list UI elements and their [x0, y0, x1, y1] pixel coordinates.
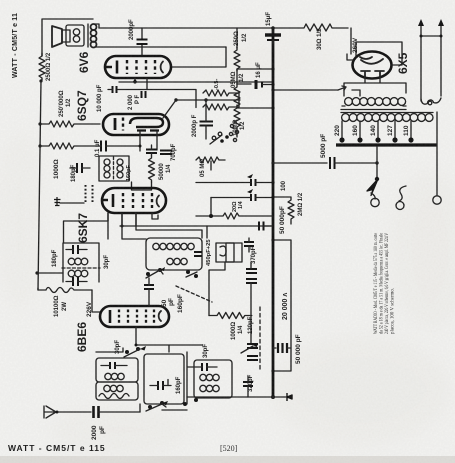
label 05: [200, 159, 206, 177]
label 20 ohm 1/4: [232, 200, 244, 212]
switch contacts av: [230, 124, 238, 137]
wire top-left corner: [42, 19, 93, 56]
wire cathode rail: [118, 90, 196, 108]
ground main: [284, 393, 292, 401]
label 2M ohm 1/2: [298, 192, 304, 216]
switch circles volume: [229, 132, 236, 141]
wire grid to if can: [64, 213, 109, 243]
junction dot bus 146: [38, 144, 41, 147]
label 5000pF: [320, 134, 327, 158]
label 20000 ohm: [282, 293, 289, 320]
label 250000 ohm 1/2: [59, 90, 72, 117]
junction dot left bus if: [35, 271, 63, 274]
IF T2 top capacitor 180pF: [66, 245, 87, 254]
footer model label: [8, 443, 106, 453]
capacitor 180pF av: [70, 163, 90, 173]
interstage primary column: [104, 159, 110, 178]
rf bottom trimmer: [146, 401, 168, 411]
rf coil box right: [194, 360, 232, 398]
tube 6X5 envelope: [353, 52, 392, 79]
label 30pF rf: [203, 344, 209, 358]
pilot winding riser left: [418, 19, 424, 101]
label 6SK7: [76, 213, 90, 243]
6X5 cathode arc: [360, 57, 383, 64]
label 6V6: [77, 51, 91, 73]
6SQ7 grid dashes: [122, 118, 124, 131]
label 250 ohm 1/2: [234, 31, 248, 46]
6SK7 leads down: [108, 213, 158, 239]
rf middle frame: [144, 354, 184, 404]
label 50000pF output: [295, 334, 302, 364]
label 120pF: [248, 316, 254, 334]
resistor 1000 ohm: [40, 143, 96, 149]
label 2000 pF: [128, 94, 141, 110]
capacitor 5000pF: [330, 157, 378, 169]
oscillator primary coil: [153, 243, 194, 249]
antenna coil resistor wavy: [99, 394, 129, 399]
interstage transformer box: [99, 156, 129, 181]
label 0.1uF: [95, 139, 101, 157]
transformer primary winding: [342, 114, 433, 122]
oscillator padder cap: [194, 252, 202, 256]
antenna symbol: [44, 406, 59, 418]
label 10M ohm 1/2: [233, 119, 246, 136]
pilot lamp lead: [433, 112, 441, 204]
wire bus to 5000pF: [271, 161, 378, 164]
antenna coil cap: [101, 362, 127, 369]
mains lead wire: [375, 147, 379, 181]
6SK7 grids dashed: [123, 193, 152, 208]
antenna coil winding upper: [105, 373, 124, 379]
transformer core lines: [341, 110, 433, 113]
capacitor 370pF: [244, 238, 254, 252]
label 6SQ7: [75, 90, 89, 121]
riser connector wire: [420, 35, 443, 38]
label 160pF osc: [177, 294, 184, 313]
label 2500 ohm 1/2: [46, 52, 52, 81]
capacitor decoupling a: [196, 174, 275, 186]
pilot winding loops: [421, 98, 441, 105]
6SQ7 plate bar: [114, 118, 117, 130]
antenna coil box upper: [96, 358, 138, 382]
6SK7 plate bar: [102, 194, 113, 207]
capacitor 0.1uF: [96, 141, 142, 152]
label 2000pF: [129, 19, 135, 40]
oscillator switch dots: [186, 270, 198, 278]
antenna trimmer: [124, 346, 146, 357]
label 370pF: [251, 246, 257, 264]
capacitor 50pF: [144, 278, 154, 306]
tap 140: [370, 121, 381, 143]
label 320pF: [248, 374, 254, 392]
capacitor 10000pF: [108, 86, 117, 93]
wire chain top connector: [236, 28, 238, 48]
footer page number: [220, 444, 238, 453]
IF T2 secondary coil: [68, 270, 88, 277]
mains plug arrow: [367, 179, 379, 207]
output transformer primary winding: [88, 24, 97, 48]
wire HT left drop: [271, 86, 360, 96]
6SQ7 plate diagonal wire: [163, 98, 178, 118]
resistor 2500ohm 1/2 field coil: [39, 53, 45, 80]
wire 6V6 plate to OPT: [171, 47, 226, 67]
wire frontend bottom: [140, 397, 228, 412]
bfo coil box: [226, 243, 242, 262]
rf coil winding upper: [200, 374, 219, 380]
6SQ7 cathode leads: [140, 131, 157, 151]
6V6 plate bar: [105, 61, 117, 74]
wire cathode bottom: [132, 182, 152, 190]
resistor 250k grid: [40, 121, 100, 127]
pilot winding riser right: [438, 19, 444, 96]
voltage selector bar: [336, 143, 437, 146]
label 30pF if: [104, 255, 110, 269]
label 100: [281, 180, 287, 191]
wire 6X5 plate left: [347, 42, 402, 65]
label 226V: [86, 301, 93, 317]
wire screen rail: [119, 81, 273, 83]
electrolytic 15uF: [265, 30, 281, 44]
capacitor 2000pF plate bypass: [137, 28, 148, 56]
capacitor near avc: [259, 222, 273, 231]
wire bus branch right column: [271, 238, 291, 372]
transformer HV winding: [342, 98, 406, 106]
6V6 cathode arc: [161, 62, 163, 73]
resistor tone lower: [203, 93, 239, 110]
label 10000 ohm 2W: [54, 295, 68, 317]
page title vertical WATT - CM5/T e 11: [12, 13, 19, 78]
tube 6SQ7 envelope: [103, 114, 169, 135]
label 180pF: [71, 164, 77, 182]
capacitor 700pF: [160, 151, 172, 155]
resistor 250 ohm cathode: [234, 47, 240, 71]
fuse hook: [396, 186, 406, 210]
label 450pF+25: [206, 239, 212, 266]
resistor 1000 1/4: [209, 313, 252, 319]
oscillator secondary coil: [167, 258, 187, 264]
wire 260V down to 6X5: [350, 28, 352, 54]
6BE6 grids dashed: [119, 310, 154, 324]
interstage secondary column: [117, 159, 123, 178]
left bus wire: [38, 81, 41, 290]
bus bottom junction: [228, 395, 284, 399]
dotted leads down: [86, 185, 93, 202]
wire plate rail: [176, 99, 240, 101]
label 260V: [352, 37, 359, 53]
tap 110: [403, 121, 414, 143]
main HT bus thick: [272, 28, 275, 398]
6X5 filament dashes: [361, 71, 384, 78]
label 6X5: [396, 52, 410, 74]
wire 226V drop: [92, 290, 100, 312]
6V6 leads to lower rail: [133, 78, 148, 90]
resistor 50000 1/4: [149, 156, 155, 182]
junction dot bus top: [271, 26, 275, 30]
resistor 0.5M feedback: [203, 79, 239, 96]
wire osc right drop: [209, 262, 225, 316]
label 1000 ohm 1/4: [231, 322, 244, 340]
junction dot bus 124: [38, 122, 41, 125]
wire osc to tube: [122, 213, 207, 239]
resistor 10M: [234, 105, 275, 129]
label 16uF: [256, 62, 262, 78]
capacitor decoupling b: [211, 189, 273, 201]
label 15uF: [266, 12, 272, 26]
electrolytic 16uF: [237, 80, 275, 89]
6BE6 cathode arc: [159, 311, 161, 321]
label 30 ohm 1/2: [317, 28, 323, 50]
label 160pF interstage: [126, 164, 132, 181]
gang trimmer caps: [241, 343, 258, 360]
resistor 30 ohm 1/2: [273, 24, 348, 31]
tap 220: [334, 121, 345, 143]
IF T2 core dashes: [62, 267, 100, 269]
label 50000 1/4: [159, 163, 172, 180]
IF T2 primary coil: [68, 258, 88, 265]
capacitor 2000pF antenna: [58, 406, 140, 418]
caption line 1: [374, 233, 379, 334]
junction dot left bus top: [39, 79, 42, 82]
small coupling box: [216, 243, 234, 262]
antenna coil winding lower: [104, 385, 123, 391]
IF transformer T2 box: [63, 243, 99, 282]
ground 6SK7 left: [54, 197, 84, 206]
capacitor 160pF rf: [150, 380, 171, 391]
resistor 10000 ohm 2W: [38, 288, 92, 293]
capacitor 320pF: [243, 376, 253, 397]
caption line 4: [391, 288, 396, 334]
oscillator coil box: [146, 238, 202, 270]
capacitor 2000pF coupling: [142, 91, 146, 98]
rf coil winding lower: [200, 385, 219, 391]
wire 6X5 to filament winding: [344, 78, 406, 96]
tube 6V6 envelope: [105, 56, 171, 78]
padder caps stack: [246, 262, 257, 343]
IF T2 bottom capacitor 180pF: [66, 277, 87, 286]
second top wire: [99, 46, 226, 48]
resistor 0.5M tone: [196, 157, 225, 170]
6SQ7 diode-triode loop: [130, 118, 163, 131]
capacitor 160pF cathode: [146, 145, 157, 156]
tap 127: [387, 121, 398, 143]
label 30pF ant: [115, 340, 121, 354]
tap 160: [352, 121, 363, 143]
caption line 2: [380, 233, 385, 334]
gang dashed diagonal: [176, 286, 212, 302]
capacitor 50000pF output: [273, 343, 291, 353]
top rail wire B+: [99, 27, 273, 29]
antenna coil box lower: [96, 382, 138, 400]
caption line 3: [385, 233, 390, 334]
capacitor 2000pF detector: [200, 98, 214, 139]
label 10000pF: [97, 84, 103, 112]
6SK7 cathode arc: [157, 196, 159, 207]
wire long avc rail: [120, 225, 271, 228]
tube 6SK7 envelope: [102, 188, 166, 213]
label 160pF rf: [176, 376, 182, 394]
label 50pF: [161, 298, 175, 307]
label 2000pF ant: [91, 425, 106, 440]
output transformer T1: [66, 25, 84, 46]
label 50000pF right: [279, 206, 286, 234]
interstage core dashes: [113, 157, 115, 180]
label 6BE6: [75, 322, 89, 352]
label 2000pF det: [192, 114, 198, 137]
wire frontend top: [96, 327, 202, 404]
tube 6BE6 envelope: [100, 306, 169, 327]
resistor 2M ohm: [271, 195, 294, 224]
6BE6 plate bar: [109, 310, 112, 323]
switch tone contacts: [210, 132, 229, 144]
label 180pF if: [52, 249, 58, 267]
label 700pF: [171, 143, 177, 161]
resistor 05M: [234, 69, 240, 108]
resistor 20k cathode 6SK7: [196, 198, 273, 220]
6V6 grids dashed: [127, 60, 155, 74]
gang dashed link: [259, 307, 261, 369]
label 05M ohm 1/2: [231, 71, 245, 88]
wire 250 to bus: [237, 67, 275, 70]
capacitor 30pF rf: [195, 363, 217, 371]
rf switch dots: [183, 398, 198, 406]
label 1000 ohm: [53, 159, 60, 179]
speaker LS: [52, 26, 70, 47]
trimmer oscillator: [146, 267, 165, 278]
wire transformer to top rail: [95, 24, 99, 47]
